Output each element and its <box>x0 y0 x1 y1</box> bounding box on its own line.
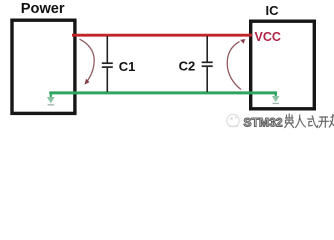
block IC (box) <box>251 21 315 109</box>
watermark text CJK: 开 <box>318 117 329 128</box>
svg-text:VCC: VCC <box>255 30 281 44</box>
current loop arrow left (around C1) <box>80 39 95 82</box>
watermark logo icon <box>227 114 239 127</box>
capacitor C1 (bottom lead) <box>106 68 108 92</box>
wire VCC rail (red, Power to IC) <box>72 34 252 37</box>
capacitor C1 (plates) <box>102 62 113 64</box>
capacitor C2 (plates) <box>202 61 213 63</box>
svg-text:Power: Power <box>21 1 65 17</box>
capacitor C2 (bottom lead) <box>206 67 208 92</box>
capacitor C2 (top lead) <box>206 36 208 62</box>
svg-text:STM32: STM32 <box>244 116 283 130</box>
block Power (box) <box>12 20 75 113</box>
watermark text CJK: 入 <box>295 115 306 128</box>
watermark text CJK: 式 <box>307 116 318 128</box>
watermark text CJK: 发 <box>329 114 334 128</box>
svg-text:C2: C2 <box>179 59 196 74</box>
wire ground rail (green) <box>49 91 277 94</box>
capacitor C1 (top lead) <box>106 36 108 63</box>
ground (arrow symbol in Power box) <box>47 97 55 103</box>
svg-text:IC: IC <box>266 3 280 18</box>
current loop arrow right (around C2) <box>227 42 241 90</box>
svg-text:C1: C1 <box>119 59 136 74</box>
watermark text CJK: 嵌 <box>285 114 295 129</box>
ground (arrow symbol in IC box) <box>272 96 280 102</box>
wire ground stub right (into IC box) <box>275 93 277 96</box>
watermark text STM32 <box>244 116 283 130</box>
wire ground stub left (into Power box) <box>50 93 52 97</box>
